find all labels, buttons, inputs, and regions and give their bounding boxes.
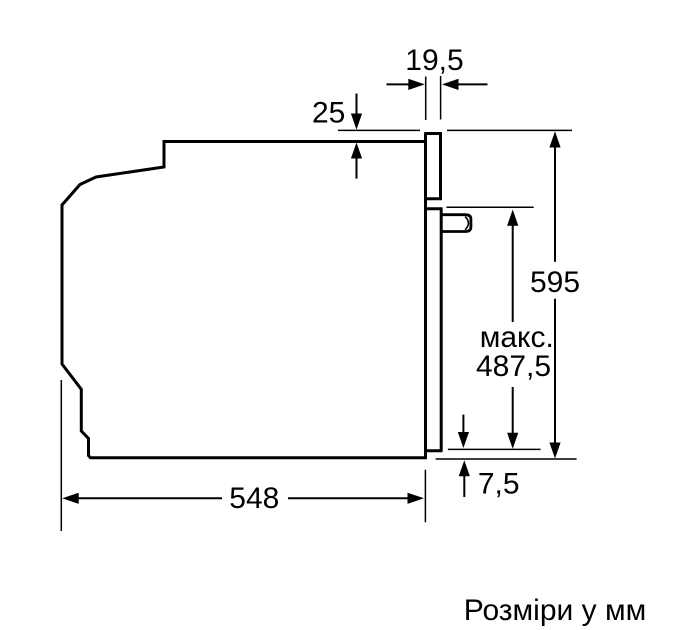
bottom lower extension line bbox=[436, 458, 577, 460]
dim 487,5 upper arrow bbox=[507, 210, 518, 226]
bottom upper extension line bbox=[448, 448, 541, 450]
dim 487,5 handle extension line bbox=[447, 206, 534, 208]
door front edge bbox=[440, 209, 443, 451]
door handle bbox=[442, 215, 471, 232]
svg-text:25: 25 bbox=[312, 96, 345, 129]
oven body outline bbox=[62, 142, 427, 458]
dim 548 right arrow bbox=[288, 497, 409, 499]
dim 595 top extension line bbox=[447, 129, 572, 131]
front frame back edge bbox=[424, 134, 427, 458]
door bottom bar bbox=[424, 449, 442, 452]
dim 595 upper arrow bbox=[549, 131, 560, 147]
svg-text:595: 595 bbox=[530, 266, 580, 299]
svg-text:7,5: 7,5 bbox=[478, 468, 520, 501]
svg-text:548: 548 bbox=[229, 482, 279, 515]
control panel bottom bar bbox=[424, 197, 442, 200]
svg-text:487,5: 487,5 bbox=[476, 350, 551, 383]
handle end inner arc bbox=[465, 217, 468, 230]
dim 25 up arrow bbox=[356, 158, 358, 179]
control panel front edge bbox=[439, 134, 442, 199]
door top bar bbox=[424, 207, 442, 210]
dim 7,5 lower arrow bbox=[459, 460, 470, 476]
dim 19,5 right extension line bbox=[440, 76, 442, 120]
svg-text:Розміри у мм: Розміри у мм bbox=[464, 594, 646, 627]
dim 25 down arrow bbox=[356, 94, 358, 116]
dim 7,5 upper arrow bbox=[462, 415, 464, 433]
control panel top edge bbox=[424, 132, 442, 135]
dim 595 lower arrow bbox=[554, 299, 556, 444]
svg-text:19,5: 19,5 bbox=[405, 44, 463, 77]
dim 19,5 left arrow bbox=[387, 83, 410, 85]
dim 25 reference line bbox=[338, 129, 420, 131]
dim 548 left arrow bbox=[62, 493, 78, 504]
dim 487,5 lower arrow bbox=[512, 387, 514, 434]
dim 19,5 left extension line bbox=[425, 77, 427, 121]
dim 548 right extension line bbox=[424, 470, 426, 523]
dim 548 left extension line bbox=[60, 380, 62, 531]
dim 19,5 right arrow bbox=[459, 83, 488, 85]
